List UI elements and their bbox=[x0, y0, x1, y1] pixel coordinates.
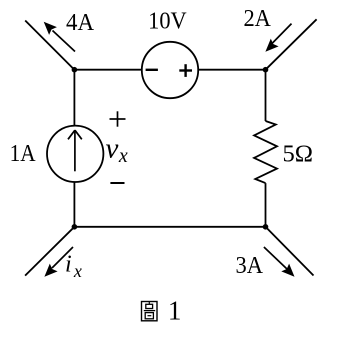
current arrow 4A bbox=[44, 22, 75, 52]
svg-text:vx: vx bbox=[106, 133, 128, 167]
wire bottom-right diagonal lead bbox=[266, 227, 314, 276]
node top-left junction bbox=[72, 67, 78, 73]
node bottom-right junction bbox=[263, 224, 269, 230]
wire right side upper segment bbox=[265, 70, 267, 121]
svg-text:1: 1 bbox=[168, 296, 182, 326]
wire left side lower segment bbox=[73, 182, 75, 227]
svg-text:10V: 10V bbox=[148, 8, 187, 34]
current arrow 2A bbox=[265, 24, 291, 52]
vx minus polarity mark bbox=[110, 182, 124, 184]
resistor R1 zigzag bbox=[254, 121, 277, 183]
current arrow ix bbox=[44, 247, 73, 277]
voltage source V1 plus terminal mark bbox=[179, 64, 192, 77]
voltage source V1 minus terminal mark bbox=[146, 69, 158, 71]
svg-text:3A: 3A bbox=[236, 253, 264, 279]
wire top side left segment bbox=[74, 69, 142, 71]
node bottom-left junction bbox=[72, 224, 78, 230]
svg-text:1A: 1A bbox=[10, 141, 37, 167]
wire bottom-left diagonal lead bbox=[25, 227, 74, 276]
current arrow 3A bbox=[264, 247, 295, 277]
svg-text:4A: 4A bbox=[66, 10, 95, 36]
svg-text:5Ω: 5Ω bbox=[283, 141, 314, 167]
wire right side lower segment bbox=[265, 183, 267, 227]
wire left side upper segment bbox=[73, 70, 75, 126]
svg-text:ix: ix bbox=[65, 252, 82, 282]
caption figure glyph 圖 bbox=[142, 302, 158, 321]
wire bottom side bbox=[74, 226, 265, 228]
node top-right junction bbox=[263, 67, 269, 73]
voltage source V1 10V circle bbox=[142, 42, 198, 98]
wire top-left diagonal lead bbox=[25, 21, 74, 70]
wire top-right diagonal lead bbox=[266, 19, 317, 69]
svg-text:2A: 2A bbox=[243, 6, 271, 32]
vx plus polarity mark bbox=[110, 111, 126, 126]
current source I1 1A circle bbox=[47, 126, 103, 182]
wire top side right segment bbox=[198, 69, 265, 71]
current source I1 internal arrow bbox=[68, 130, 82, 171]
